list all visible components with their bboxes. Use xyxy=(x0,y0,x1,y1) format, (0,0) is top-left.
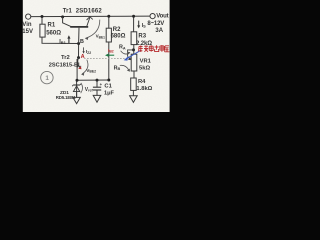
transistor Tr2 emitter arrow (red) xyxy=(78,66,81,69)
potentiometer VR1 wiper arrow xyxy=(128,56,132,60)
annotation green current arrow (left) xyxy=(105,54,114,57)
wire Tr2 base to VR1 wiper (faint) xyxy=(84,57,127,59)
ground under ZD1 xyxy=(73,97,80,103)
wire C1 top lead xyxy=(96,80,98,87)
svg-text:Tr2: Tr2 xyxy=(61,55,70,61)
label RA with curved arrow xyxy=(119,45,130,55)
label VR1 5kohm xyxy=(139,58,152,71)
svg-text:C1: C1 xyxy=(104,83,112,89)
potentiometer VR1 wiper lead xyxy=(128,50,134,57)
svg-text:680Ω: 680Ω xyxy=(111,33,126,39)
annotation red kanji text (set output voltage) xyxy=(139,45,170,52)
wire Tr2 emitter down lead xyxy=(76,67,78,80)
svg-text:R2: R2 xyxy=(113,27,121,33)
svg-text:Vref: Vref xyxy=(85,87,94,93)
terminal Vin xyxy=(26,14,31,19)
svg-text:Vin: Vin xyxy=(22,22,32,28)
annotation Vref bracket xyxy=(81,83,83,93)
junction dots xyxy=(41,15,136,82)
label R3 2.2kohm xyxy=(136,34,152,48)
svg-text:Tr1: Tr1 xyxy=(63,9,73,15)
label Iz2 with down arrow xyxy=(82,47,91,55)
label IB1 with up arrow xyxy=(59,35,70,45)
svg-text:15V: 15V xyxy=(22,29,33,35)
resistor R4 xyxy=(131,78,137,90)
svg-text:1: 1 xyxy=(45,75,49,82)
wire node B to node A (Tr2 collector) xyxy=(78,44,80,58)
svg-text:IS: IS xyxy=(142,23,147,29)
svg-text:2SD1662: 2SD1662 xyxy=(76,9,103,15)
annotation blue arrow to wiper xyxy=(124,50,141,60)
wire R3 bottom to VR1 top xyxy=(133,45,135,55)
label R1 560ohm xyxy=(46,23,61,37)
wire R4 bottom lead xyxy=(132,90,134,95)
svg-text:8~12V: 8~12V xyxy=(147,21,164,27)
svg-text:IZ2: IZ2 xyxy=(86,49,91,55)
svg-text:3A: 3A xyxy=(155,28,163,34)
wire R2 bottom down to bottom rail xyxy=(108,42,110,80)
resistor R2 xyxy=(106,28,111,42)
wire C1 bottom lead xyxy=(96,90,98,95)
ground under R4 xyxy=(130,96,138,103)
wire bottom rail (zener node) xyxy=(77,79,109,81)
ground under C1 xyxy=(93,95,101,102)
svg-text:Vout: Vout xyxy=(156,14,168,20)
svg-text:560Ω: 560Ω xyxy=(46,31,61,37)
svg-text:RD5.1EB1: RD5.1EB1 xyxy=(56,95,76,100)
label R4 1.8kohm xyxy=(136,79,152,92)
label Tr2 2SC1815-BL xyxy=(49,55,82,69)
transistor Q Tr1 collector lead xyxy=(63,17,72,27)
svg-text:A: A xyxy=(81,54,85,60)
svg-text:IB2: IB2 xyxy=(108,48,114,54)
svg-text:5kΩ: 5kΩ xyxy=(139,66,150,72)
transistor Tr1 base lead xyxy=(78,28,80,44)
label Vin 15V xyxy=(22,22,33,35)
svg-text:RA: RA xyxy=(119,45,126,51)
svg-text:R3: R3 xyxy=(138,34,146,40)
resistor R1 xyxy=(40,24,45,37)
svg-text:IB1: IB1 xyxy=(59,39,66,45)
terminal Vout xyxy=(150,14,155,19)
resistor R3 xyxy=(131,32,137,45)
svg-text:2SC1815-BL: 2SC1815-BL xyxy=(49,62,82,68)
wire top rail xyxy=(31,15,150,18)
wire VR1 bottom to R4 top xyxy=(133,71,135,78)
circled number 1 xyxy=(41,71,53,83)
label Vout 8~12V 3A xyxy=(147,14,168,34)
wire R3 top lead xyxy=(133,16,135,32)
label R2 680ohm xyxy=(111,27,126,40)
wire R2 top lead xyxy=(108,16,110,28)
svg-text:R4: R4 xyxy=(138,79,146,85)
transistor Tr1 base bar xyxy=(70,26,88,28)
svg-text:RB: RB xyxy=(114,65,121,71)
wire zener top lead xyxy=(76,80,78,97)
capacitor C1 plates xyxy=(93,87,101,90)
potentiometer VR1 box xyxy=(131,54,137,71)
svg-text:VBE2: VBE2 xyxy=(86,68,96,74)
svg-text:R1: R1 xyxy=(48,23,56,29)
svg-text:VBE1: VBE1 xyxy=(96,34,106,40)
svg-text:B: B xyxy=(80,39,84,45)
transistor Tr2 body xyxy=(77,58,80,68)
transistor Tr1 emitter with arrow to rail xyxy=(87,17,93,27)
wire R1 top lead xyxy=(41,17,43,25)
svg-text:1.8kΩ: 1.8kΩ xyxy=(136,86,152,92)
label ZD1 RD5.1EB1 xyxy=(56,90,76,100)
label C1 1uF xyxy=(104,83,115,96)
annotation VBE2 curved arrow xyxy=(81,60,96,76)
wire zener bottom lead xyxy=(76,92,78,98)
zener diode ZD1 xyxy=(72,84,81,92)
wire R1 bottom to node B xyxy=(42,37,79,43)
annotation VBE1 curved arrow xyxy=(85,20,105,40)
svg-text:VR1: VR1 xyxy=(140,58,152,64)
label Is with down arrow xyxy=(137,21,146,29)
transistor Tr1 label xyxy=(63,9,103,15)
svg-text:1μF: 1μF xyxy=(104,91,115,97)
label RB with curved arrow xyxy=(114,65,130,71)
